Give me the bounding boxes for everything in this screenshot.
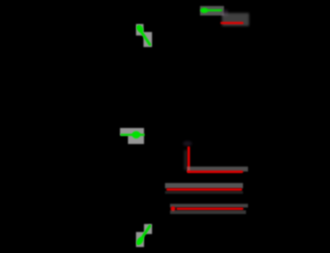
ester C-O bond (red, vertical) (187, 148, 190, 172)
artifact haze around chlorine Cl4 (bottom) (136, 224, 152, 247)
artifact haze above C=O bond 3 (170, 204, 248, 208)
artifact haze left of ester C-O vertical bond (184, 150, 188, 170)
C=O bond 2 (red, horizontal) (168, 188, 242, 190)
artifact haze around chlorine Cl3 (mid-left) (120, 128, 144, 144)
artifact haze below C=O bond 2 (165, 191, 243, 194)
chlorine label blob Cl2 (200, 8, 208, 13)
C-Cl bond (green half) to Cl4 (138, 226, 150, 244)
O-H bond (red) at O1 (222, 22, 243, 24)
artifact haze above C=O bond 2 (165, 183, 243, 188)
artifact haze around chlorine Cl2 (top-right) (200, 6, 224, 16)
C-Cl bond (green half) to Cl1 (139, 28, 150, 45)
C=O bond 3 (red, horizontal) (178, 208, 243, 210)
artifact haze around chlorine Cl1 (top-left) (136, 24, 152, 47)
artifact haze below C=O bond 3 (170, 210, 246, 214)
oxygen atom dot O3 (171, 206, 176, 211)
artifact haze above O-C bond 1 (187, 167, 248, 172)
chlorine label blob Cl4 (135, 236, 145, 246)
chlorine label blob Cl1 (135, 24, 144, 34)
chlorine label blob Cl3 (132, 131, 140, 138)
C-Cl bond (green half) to Cl3 (121, 134, 145, 136)
dark bond stub right of Cl2 (222, 10, 229, 17)
faint carbonyl atom smudge above ester oxygen (183, 141, 192, 146)
C-Cl bond (green half) to Cl2 (208, 9, 222, 11)
ester O-C bond 1 (red, horizontal) (188, 171, 242, 173)
artifact haze around hydroxyl O1 (top-right) (222, 13, 249, 26)
